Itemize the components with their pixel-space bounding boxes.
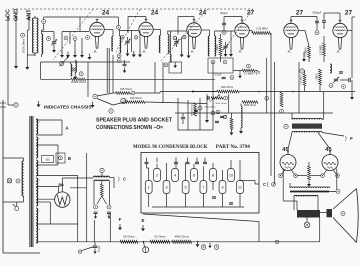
tuning capacitor stage 3 <box>174 42 178 44</box>
svg-text:5000 Ohms: 5000 Ohms <box>244 104 257 107</box>
interstage transformer core <box>292 124 322 129</box>
plate resistor 0.25 MEG <box>252 32 271 35</box>
wire right edge down <box>351 80 353 95</box>
tube V7 45 <box>280 150 296 174</box>
svg-text:24: 24 <box>199 10 207 17</box>
wire core to terminal <box>329 190 336 192</box>
tuning capacitor stage 1 <box>52 42 56 44</box>
AVC bus <box>175 112 333 114</box>
wire B down 1 <box>86 153 88 242</box>
svg-text:0.5 MEG: 0.5 MEG <box>306 47 308 56</box>
bleeder cap b <box>107 212 111 213</box>
terminal tick 2 <box>0 106 6 108</box>
terminal L2 grid <box>42 20 46 24</box>
speaker cone top <box>333 189 357 210</box>
RF transformer T2 secondary <box>120 36 121 53</box>
wire LOC down <box>7 18 9 106</box>
dashed gang diagonal 3 <box>160 9 208 62</box>
cathode bus stage4 <box>215 30 235 32</box>
ground chain <box>196 241 200 247</box>
antenna coil primary <box>33 18 34 53</box>
wire V2 grid <box>145 17 147 20</box>
wire T2 primary down <box>112 55 114 93</box>
resistor 10000 Ohms mid <box>71 78 86 81</box>
wire audio down <box>323 92 325 120</box>
wire stage2 v131 <box>131 31 133 53</box>
resistor 915 Ohm <box>116 92 131 95</box>
coupling cap right <box>349 78 351 82</box>
terminal B block <box>59 156 63 160</box>
svg-text:F: F <box>119 217 122 222</box>
screen bus left <box>41 78 72 80</box>
cathode bus stage2 <box>120 30 139 32</box>
ground GND wire <box>14 63 18 69</box>
condenser unit 3 <box>163 181 170 194</box>
grid condenser cap <box>222 23 226 25</box>
volume control potentiometer <box>60 62 64 66</box>
wire HV plate 1 <box>36 186 58 188</box>
wire vertical 110 <box>109 214 111 242</box>
ground stage3 b <box>187 52 191 58</box>
svg-text:0.1 MEG: 0.1 MEG <box>244 72 254 75</box>
center tap resistor block <box>42 156 54 163</box>
tone control cap <box>334 79 338 81</box>
cap cond feed <box>215 121 219 122</box>
junction terminal 990 <box>192 91 194 93</box>
power transformer primary winding <box>22 161 23 196</box>
condenser unit 4 <box>172 169 179 182</box>
junction dot a <box>258 91 260 93</box>
wire stage4 v231 <box>230 31 232 52</box>
RF transformer T3 primary <box>159 35 160 52</box>
svg-text:CONNECTIONS SHOWN −O=: CONNECTIONS SHOWN −O= <box>96 125 163 131</box>
terminal 267 <box>265 96 269 100</box>
wire vertical 207b <box>206 94 208 104</box>
svg-text:GND: GND <box>14 9 20 21</box>
tube V5 type 27 <box>284 20 298 49</box>
condenser unit 9 <box>219 181 226 194</box>
svg-text:5: 5 <box>185 186 187 190</box>
condenser unit 6 <box>191 169 198 182</box>
svg-text:0.25 MEG: 0.25 MEG <box>321 45 323 56</box>
terminal osc coil <box>164 63 168 67</box>
wire mid box right <box>87 62 89 97</box>
svg-text:8: 8 <box>212 174 214 178</box>
svg-text:90µµF: 90µµF <box>220 11 228 15</box>
wire GND down <box>15 18 17 63</box>
socket terminal osc b <box>79 72 83 76</box>
resistor 0.1 MEG <box>242 69 255 72</box>
wire stage1 v62 <box>61 32 63 54</box>
wire grid V8 <box>318 133 330 150</box>
tap wire A2 <box>36 134 62 136</box>
interstage terminal <box>284 124 288 128</box>
svg-text:A: A <box>143 49 146 54</box>
svg-text:INDICATES CHASSIS: INDICATES CHASSIS <box>44 105 92 111</box>
svg-text:=(: =( <box>253 70 258 75</box>
cathode bus stage3 <box>168 30 187 32</box>
wire riser 259 <box>258 222 260 242</box>
condenser internal cap a <box>212 197 216 198</box>
svg-text:7: 7 <box>202 186 204 190</box>
terminal tuning 1 <box>47 37 51 41</box>
svg-text:990 Ohms: 990 Ohms <box>221 85 234 89</box>
detector coil secondary <box>215 36 216 56</box>
svg-text:1: 1 <box>148 186 150 190</box>
svg-text:A: A <box>239 49 242 54</box>
svg-text:0.5 µF: 0.5 µF <box>215 74 222 77</box>
terminal stage2 <box>134 36 138 40</box>
svg-text:500µµF: 500µµF <box>313 11 322 15</box>
svg-text:10000 Ohms: 10000 Ohms <box>71 80 87 84</box>
svg-text:A: A <box>94 49 97 54</box>
terminal variable resistor <box>224 96 228 100</box>
resistor 4400 Ohms <box>172 240 192 243</box>
svg-text:27: 27 <box>345 10 353 17</box>
terminal det box b <box>223 60 227 64</box>
svg-text:27: 27 <box>296 10 304 17</box>
wire stage1 v70 <box>69 32 71 45</box>
wire antenna coil bottom <box>34 52 37 54</box>
socket terminal osc a <box>72 68 75 71</box>
svg-text:PART No. 3794: PART No. 3794 <box>216 145 251 150</box>
border left <box>2 100 4 253</box>
svg-text:1 MEG: 1 MEG <box>317 73 319 80</box>
ground cond feed 2 <box>230 129 234 135</box>
svg-text:C: C <box>263 182 266 187</box>
svg-text:9: 9 <box>221 186 223 190</box>
socket terminal grid condenser <box>222 30 226 34</box>
socket terminal coupling cap <box>315 31 319 35</box>
svg-text:0.25 MEG: 0.25 MEG <box>256 27 268 31</box>
cathode terminal V8 right <box>336 174 340 178</box>
terminal stage3 <box>183 35 187 39</box>
secondary winding seg4 <box>36 178 38 206</box>
ground bleeder a <box>94 214 97 219</box>
bracket B <box>57 145 59 165</box>
power transformer core <box>29 116 31 247</box>
resistor 5000 Ohms <box>242 101 258 104</box>
terminal T2 right <box>121 36 125 40</box>
svg-text:10000 Ohms: 10000 Ohms <box>22 38 25 53</box>
wire V5 grid cap <box>290 17 292 21</box>
resistor 50 Ohms 2 <box>150 240 170 243</box>
svg-text:B: B <box>68 156 71 161</box>
condenser block box <box>141 153 259 214</box>
wire T2 secondary down <box>106 48 108 93</box>
terminal right cluster <box>342 85 346 89</box>
tube V4 type 27 <box>235 20 249 49</box>
condenser wire 7 <box>202 166 204 180</box>
ground cond feed 3 <box>239 128 243 134</box>
terminal bleeder b <box>107 205 111 209</box>
divider V wires <box>97 196 102 204</box>
ground tuning cap 1 <box>52 47 56 53</box>
svg-text:915 Ohms: 915 Ohms <box>120 87 133 91</box>
svg-text:3: 3 <box>165 186 167 190</box>
bias cell box <box>169 62 182 73</box>
ground 0.1MEG <box>238 73 242 79</box>
tap wire mid <box>36 175 77 177</box>
ground stage2 tuning <box>126 50 130 56</box>
wire HV plate 2 <box>36 198 54 200</box>
wire plate load down <box>270 33 272 176</box>
condenser wire 5 <box>185 163 187 181</box>
wire stage1 h2 <box>62 31 89 33</box>
ground bias cell <box>173 62 177 68</box>
chassis symbol chain <box>208 243 211 248</box>
socket terminal 8 <box>201 245 206 250</box>
oscillator pickup coil <box>170 54 171 62</box>
condenser wire 6 <box>193 164 195 169</box>
ground bleeder b <box>107 214 110 219</box>
tap wire low1 <box>36 201 50 203</box>
tap wire low2 <box>36 223 77 225</box>
speaker plug terminal a <box>93 94 97 98</box>
socket terminal mid right <box>300 69 304 73</box>
ground mid right <box>302 56 306 62</box>
ground bias <box>307 181 311 187</box>
LOC terminal dot <box>7 17 9 19</box>
bleeder left wire <box>93 181 95 205</box>
cathode bus stage1 <box>42 31 55 33</box>
oscillator coil <box>71 64 72 76</box>
wire L2 bottom <box>41 54 43 57</box>
bottom bus wire <box>36 241 320 243</box>
wire riser 320 <box>319 217 321 242</box>
cap mid low <box>194 110 198 111</box>
wire stage2 v126 <box>127 47 129 52</box>
output transformer core bar <box>290 191 329 193</box>
condenser unit 11 <box>237 181 244 194</box>
svg-text:A: A <box>337 49 340 54</box>
wire V7 plate to output <box>282 169 284 202</box>
wire 990 right <box>239 91 355 93</box>
wire V5 plate <box>298 30 305 32</box>
plug terminal bottom left <box>78 250 82 254</box>
svg-text:99000 Ohms: 99000 Ohms <box>191 103 193 116</box>
wire 0.1MEG right <box>255 70 258 72</box>
dashed gang diagonal 2 <box>116 9 140 52</box>
choke cond feed <box>241 106 242 128</box>
condenser wire 9 <box>222 170 224 181</box>
svg-text:A: A <box>191 49 194 54</box>
terminal output right <box>336 189 340 193</box>
svg-text:100: 100 <box>45 158 50 162</box>
ground cond feed 1 <box>205 117 209 123</box>
wire ANT down <box>28 18 30 31</box>
wire stage3 v170 <box>170 31 172 54</box>
divider resistor center <box>100 184 103 196</box>
svg-text:A: A <box>288 49 291 54</box>
wire antenna coil top <box>34 17 37 19</box>
bracket A <box>61 120 63 135</box>
svg-text:LOC: LOC <box>6 9 12 21</box>
wire vertical 267 <box>266 58 268 113</box>
wire V6 grid cap <box>339 13 341 20</box>
interstage transformer primary <box>292 118 322 119</box>
svg-text:MODEL 96 CONDENSER BLOCK: MODEL 96 CONDENSER BLOCK <box>133 145 208 150</box>
hum balance potentiometer <box>143 247 149 253</box>
ground cap stage1 out <box>123 67 127 73</box>
svg-text:4: 4 <box>174 174 176 178</box>
terminal 0.1MEG <box>247 64 251 68</box>
cap right cluster <box>339 72 343 73</box>
bias resistor center <box>308 166 311 180</box>
resistor below V5 <box>280 92 283 107</box>
condenser wire 3 <box>166 163 168 181</box>
svg-text:27: 27 <box>247 10 255 17</box>
speaker cone bottom <box>333 218 357 243</box>
ground stage2 b <box>138 51 142 57</box>
wire grid V7 <box>288 133 292 150</box>
socket terminal 9 <box>214 245 219 250</box>
wire interstage F <box>322 133 344 137</box>
condenser bottom bus <box>152 206 244 208</box>
wire V2 plate <box>153 29 160 31</box>
bypass cap det <box>181 117 185 119</box>
wire speaker plug diag 2 <box>97 99 113 106</box>
resistor 910 Ohm <box>125 101 145 104</box>
wire grid V1 vertical <box>79 17 81 31</box>
condenser wire 10 <box>230 160 232 169</box>
svg-text:C: C <box>258 70 261 75</box>
wire det vertical 2 <box>187 100 189 130</box>
tone coil <box>330 64 332 73</box>
svg-text:1 MEG: 1 MEG <box>217 44 219 51</box>
wire T2 secondary down b <box>108 48 110 93</box>
wire antenna junction <box>26 30 28 55</box>
wire det vertical 1 <box>177 98 179 130</box>
dashed gang diagonal 1 <box>53 9 93 60</box>
wire B down 2 <box>93 220 95 242</box>
condenser terminal cap 2 <box>174 162 178 163</box>
wire AVC return right <box>274 62 276 184</box>
terminal stage1 <box>64 36 68 40</box>
socket terminal det <box>198 106 202 110</box>
resistor cond feed <box>230 118 233 130</box>
wire interstage top right <box>322 118 324 121</box>
cap mid 222 <box>220 116 224 117</box>
condenser wiring top <box>146 164 148 168</box>
terminal on bottom bus <box>275 240 278 243</box>
wire V3 grid <box>193 17 195 20</box>
ground stage1 c <box>80 52 84 58</box>
terminal tick 1 <box>0 102 6 104</box>
condenser unit 8 <box>210 169 217 182</box>
condenser terminal cap 3 <box>186 162 190 163</box>
wire det vertical 3 <box>199 98 201 130</box>
ground stage1 extra <box>66 52 70 58</box>
ground filter cap <box>93 249 96 254</box>
svg-text:9: 9 <box>216 245 218 249</box>
wire V3 plate <box>201 29 209 31</box>
bleeder right wire <box>109 181 111 205</box>
coupling capacitor 500mmf <box>315 21 319 23</box>
condenser unit 5 <box>182 181 189 194</box>
screen bus <box>86 78 215 80</box>
cathode terminal V8 left <box>321 174 325 178</box>
pilot lamp <box>7 179 12 184</box>
pilot lamp terminal <box>16 179 20 183</box>
terminal stage1 d <box>86 36 90 40</box>
svg-text:4400 Ohms: 4400 Ohms <box>174 235 189 239</box>
wire V4 plate resistor <box>249 30 252 32</box>
ground stage1 a <box>60 52 64 58</box>
junction dot b <box>292 91 294 93</box>
terminal C right <box>272 182 276 186</box>
tube V6 type 27 <box>333 20 347 49</box>
ANT terminal dot <box>28 17 30 19</box>
grid resistor 0.25 MEG V6 <box>323 43 326 56</box>
primary wire top <box>23 158 25 161</box>
wire y188 link <box>70 187 87 189</box>
ground tuning cap 4 <box>224 51 228 57</box>
tube V8 45 <box>322 150 338 174</box>
tuning capacitor stage 4 <box>223 46 227 48</box>
wire V1 plate <box>104 29 113 31</box>
terminal bleeder a <box>94 205 98 209</box>
wire tone right <box>340 79 348 81</box>
wire 80 output down <box>77 202 79 242</box>
RF secondary coil L2 <box>42 34 43 54</box>
output transformer primary row2 <box>294 195 318 196</box>
terminal det box c <box>230 76 234 80</box>
wire transformer to voice coil <box>320 212 327 214</box>
condenser terminal cap 4 <box>195 162 199 163</box>
condenser wire 11 <box>239 160 241 181</box>
svg-text:24: 24 <box>151 10 159 17</box>
svg-text:6: 6 <box>193 174 195 178</box>
junction dot chain <box>143 241 145 243</box>
svg-text:50 Ohms: 50 Ohms <box>123 235 135 239</box>
condenser wire 4 <box>175 164 177 169</box>
svg-text:1000 Ohms: 1000 Ohms <box>215 103 227 105</box>
terminal stage1 v75 <box>73 37 77 41</box>
tap wire B1 <box>36 144 58 146</box>
wire choke out <box>110 177 115 179</box>
ground stage4 <box>229 51 233 57</box>
wire 910 right <box>145 102 207 104</box>
terminal cond feed b <box>223 115 226 118</box>
svg-text:2: 2 <box>156 174 158 178</box>
ground stage3 a <box>180 51 184 57</box>
wire V4 grid cap <box>241 17 243 21</box>
terminal circle left <box>14 103 18 107</box>
condenser unit 10 <box>228 169 235 182</box>
cap 0.5uF stage1 out <box>123 64 127 65</box>
wire stage3 v188 <box>188 31 190 54</box>
svg-text:ANT: ANT <box>27 9 33 21</box>
condenser outlet right <box>240 180 255 182</box>
svg-text:11: 11 <box>238 186 242 190</box>
RF transformer T3 secondary <box>168 35 169 54</box>
svg-text:E: E <box>142 218 145 223</box>
wire mid box top <box>41 61 131 63</box>
resistor 50 Ohms 1 <box>120 240 138 243</box>
ground E <box>141 225 145 231</box>
cathode terminal V7 right <box>294 174 298 178</box>
output transformer leads <box>293 197 295 211</box>
speaker plug terminal c <box>131 91 135 95</box>
wire det vertical mid2 <box>162 62 164 103</box>
wire right B plus down <box>351 31 353 79</box>
cathode terminal V7 left <box>279 174 283 178</box>
RF transformer T2 primary <box>112 37 113 52</box>
wire det vertical mid <box>154 62 156 93</box>
svg-text:910 Ohms: 910 Ohms <box>130 96 143 100</box>
cap variable resistor <box>208 96 209 100</box>
